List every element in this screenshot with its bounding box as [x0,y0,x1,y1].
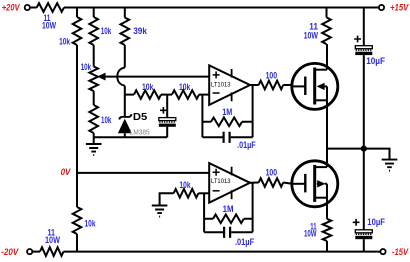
capacitor .01uF lower [204,227,254,248]
wire node REF down to D5 [124,95,126,116]
wire 100 to Q2 gate [283,183,292,184]
wire node A down to C-ref [166,95,168,118]
wire U1 output [250,84,259,86]
svg-text:100: 100 [266,70,278,81]
wire mid node bus [327,149,390,160]
svg-text:10k: 10k [101,115,112,126]
node 0V label [61,167,71,178]
potentiometer 10k [81,62,110,91]
svg-text:10W: 10W [304,229,317,240]
ground reference divider [86,137,102,155]
resistor 10k row1 [134,82,161,99]
svg-text:10k: 10k [81,62,92,73]
svg-text:10k: 10k [179,82,191,93]
wire node REF to row R1 [125,94,134,96]
wire hop over wiper [117,68,125,86]
terminal +20V [25,5,30,10]
capacitor C1 10uF [354,36,385,68]
svg-text:1M: 1M [223,204,234,215]
wire terminal to R input [30,7,37,9]
wire R-A to 0V rail [76,45,78,207]
svg-text:LM385: LM385 [130,127,150,136]
resistor 100 lower [259,167,284,187]
mosfet Q2 [292,149,338,219]
wire rail to C1 [363,8,365,46]
wire row2 to op-amp U1 - input [199,94,209,96]
ground bottom network [152,193,174,216]
svg-text:10k: 10k [59,36,70,47]
svg-text:10W: 10W [304,30,318,41]
node +20V label [2,2,20,13]
node -15V label [392,247,409,258]
svg-text:LT1013: LT1013 [211,82,231,89]
svg-text:10k: 10k [85,218,96,229]
wire 100 to Q1 gate [283,84,292,86]
wire R-A lower to bottom rail [76,234,78,252]
wire ground bus reference [94,136,168,138]
resistor R-A upper 10k [59,17,81,47]
wire C2 to bottom rail [363,239,365,251]
node +15V label [390,3,409,14]
wire rail to R-A [76,8,78,18]
svg-text:0V: 0V [61,167,71,178]
resistor 11 10W upper-right [304,17,331,44]
resistor 10k row2 [172,82,199,99]
junction mid node [361,146,367,152]
svg-text:10k: 10k [179,180,191,191]
resistor 11 10W bottom-left horizontal [40,228,64,256]
wire 39k to hop [124,45,126,68]
wire R-B to pot [93,45,95,67]
wire hop to node REF [124,86,126,95]
resistor 10k bottom-network [174,180,199,198]
resistor 1M upper [211,107,242,126]
capacitor C2 10uF lower [353,217,385,239]
svg-text:.01µF: .01µF [235,237,254,248]
wire rail to R-B [93,8,95,18]
svg-text:10µF: 10µF [367,217,385,228]
wire pot to R-B lower [93,91,95,105]
terminal -15V [380,249,385,254]
wire wiper to op-amp U1 + input [110,76,209,78]
capacitor C-ref 10u electrolytic [159,107,176,137]
wire terminal to R bottom [32,251,40,253]
svg-text:-15V: -15V [392,247,409,258]
svg-text:-20V: -20V [1,247,19,258]
svg-text:10W: 10W [42,20,56,31]
wire rail to 39k [124,8,126,18]
resistor 39k [121,18,148,46]
capacitor .01uF upper [202,132,255,151]
wire row1 to node A [161,94,172,96]
resistor 100 upper [259,70,284,89]
wire U1 feedback left rail [201,95,203,138]
wire 0V rail [77,172,209,174]
wire 0V to R-A lower [76,173,78,207]
svg-text:10k: 10k [101,26,112,37]
wire U2 feedback left rail [203,193,205,232]
node -20V label [1,247,19,258]
svg-text:10W: 10W [45,235,60,246]
svg-text:D5: D5 [133,112,148,123]
terminal -20V [27,249,32,254]
svg-text:+20V: +20V [2,2,20,13]
svg-text:LT1013: LT1013 [211,178,231,185]
svg-text:10µF: 10µF [366,56,385,67]
resistor R-A lower 10k [73,207,96,234]
wire bottom rail [64,251,381,253]
svg-text:100: 100 [266,167,278,178]
wire 1M leads upper [202,121,252,123]
resistor R-B lower 10k [89,105,111,133]
svg-text:+15V: +15V [390,3,409,14]
ground mid right [382,160,398,171]
resistor R-B upper 10k [89,17,111,45]
mosfet Q1 [292,44,338,149]
resistor 11 10W top-left horizontal [37,3,64,31]
svg-text:10k: 10k [142,82,154,93]
wire R-B to ground wire [93,133,95,137]
wire top rail +15V [64,7,379,9]
op-amp U2 LT1013 [209,163,250,203]
svg-text:39k: 39k [133,26,147,37]
wire 1M leads lower [204,218,253,220]
resistor 11 10W lower-right [304,219,331,241]
op-amp U1 LT1013 [209,65,250,105]
wire U2 output drop [252,183,254,233]
wire U2 output [250,182,259,184]
wire rail to R11 top [326,8,328,18]
wire C1 down through mid node [363,55,365,230]
zener diode D5 LM385 [118,112,150,137]
terminal +15V [379,5,384,10]
resistor 1M lower [213,204,244,223]
svg-text:1M: 1M [222,107,232,118]
wire 10k to U2 - input [198,192,209,194]
svg-text:.01µF: .01µF [237,140,256,151]
wire U1 output drop [252,85,254,137]
wire R11 to bottom rail [326,241,328,252]
